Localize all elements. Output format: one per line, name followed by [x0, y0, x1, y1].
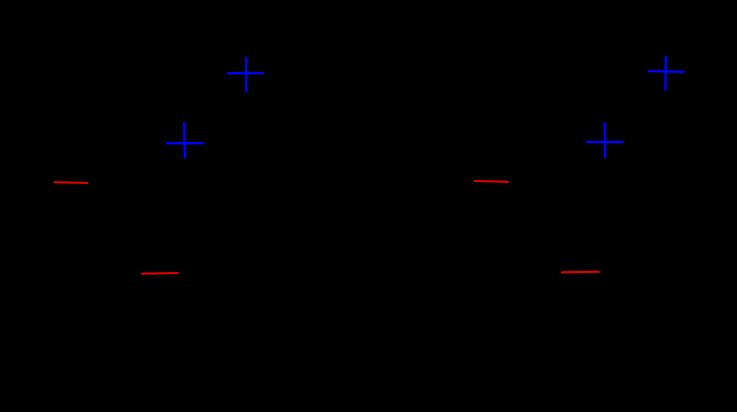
right molecule: O bond C: [474, 180, 509, 183]
right molecule: N+ cross D (lower): [586, 122, 624, 158]
left molecule: N+ cross A (upper): [227, 57, 264, 92]
left molecule: O bond A: [54, 181, 88, 184]
left molecule: N+ cross B (lower): [166, 122, 204, 158]
left molecule: O bond B: [141, 272, 178, 275]
right molecule: N+ cross C (upper): [648, 56, 685, 91]
right molecule: O bond D: [561, 271, 600, 274]
